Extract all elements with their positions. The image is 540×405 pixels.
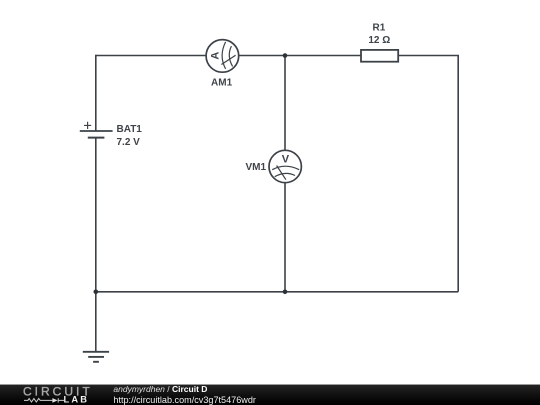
svg-text:VM1: VM1	[245, 162, 266, 173]
ammeter AM1	[206, 40, 239, 73]
svg-text:A: A	[209, 52, 221, 60]
svg-text:12 Ω: 12 Ω	[368, 35, 390, 46]
wire left vertical upper	[95, 55, 97, 131]
battery BAT1	[80, 122, 113, 138]
footer credit line	[113, 384, 207, 394]
footer url line	[113, 395, 256, 405]
svg-text:7.2 V: 7.2 V	[117, 137, 141, 148]
wire top-left segment	[96, 55, 206, 57]
footer bar	[0, 385, 540, 405]
svg-text:BAT1: BAT1	[117, 124, 143, 135]
wire middle vertical upper	[284, 55, 286, 151]
wire ammeter to resistor	[239, 55, 361, 57]
resistor R1	[361, 50, 398, 62]
svg-text:LAB: LAB	[64, 394, 90, 404]
wire left vertical lower	[95, 138, 97, 352]
voltmeter VM1	[269, 150, 301, 182]
ground	[83, 352, 109, 362]
wire middle vertical lower	[284, 183, 286, 292]
node junction top middle	[283, 53, 288, 58]
node junction bottom middle	[283, 290, 288, 295]
node junction bottom left	[94, 290, 99, 295]
svg-text:AM1: AM1	[211, 78, 233, 89]
svg-text:V: V	[282, 153, 290, 165]
wire resistor to right corner and down	[398, 56, 458, 292]
CircuitLab logo	[0, 384, 110, 405]
svg-text:R1: R1	[373, 23, 386, 34]
wire bottom	[96, 291, 458, 293]
